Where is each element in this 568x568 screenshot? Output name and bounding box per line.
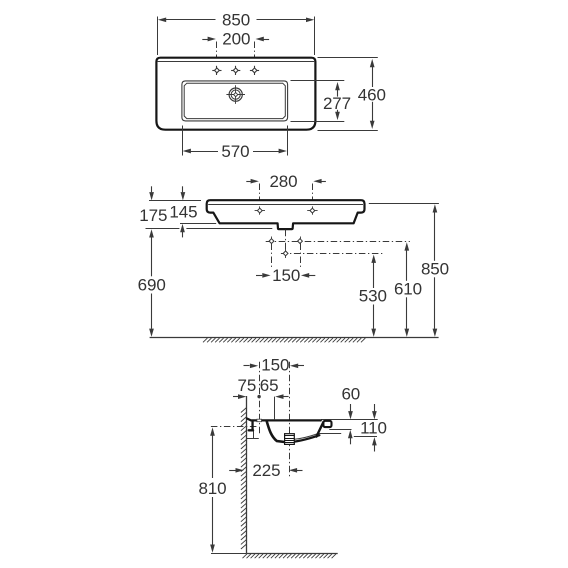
svg-text:110: 110: [360, 419, 387, 438]
svg-text:530: 530: [359, 287, 387, 306]
svg-text:810: 810: [198, 479, 226, 498]
svg-text:850: 850: [222, 11, 250, 30]
svg-text:570: 570: [221, 142, 249, 161]
svg-text:65: 65: [260, 376, 279, 395]
svg-text:150: 150: [272, 266, 300, 285]
svg-text:280: 280: [269, 172, 297, 191]
svg-text:150: 150: [261, 356, 289, 375]
svg-text:850: 850: [421, 259, 449, 278]
svg-text:460: 460: [358, 85, 386, 104]
svg-text:610: 610: [394, 279, 422, 298]
svg-text:175: 175: [139, 206, 167, 225]
svg-text:277: 277: [323, 94, 351, 113]
svg-text:200: 200: [222, 30, 250, 49]
svg-text:75: 75: [238, 376, 257, 395]
svg-text:145: 145: [169, 203, 197, 222]
svg-text:60: 60: [341, 385, 360, 404]
svg-text:690: 690: [138, 275, 166, 294]
svg-text:225: 225: [252, 461, 280, 480]
